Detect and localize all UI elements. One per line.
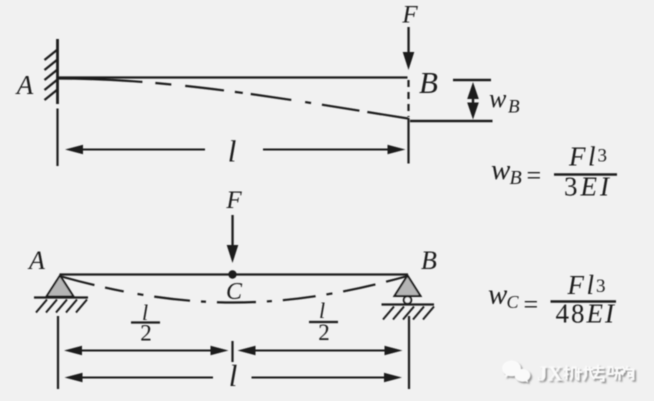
glyph 械: [577, 366, 595, 381]
roller support B (triangle): [395, 276, 421, 297]
svg-text:l: l: [229, 358, 238, 393]
right extension line (bottom): [408, 316, 410, 389]
svg-text:l: l: [228, 134, 237, 169]
left extension line (bottom): [57, 316, 59, 389]
node C dot: [228, 270, 236, 278]
svg-text:3: 3: [596, 276, 606, 297]
svg-text:B: B: [508, 97, 520, 118]
glyph 研: [607, 367, 622, 380]
ground line A: [34, 296, 88, 298]
deflection curve 2 (dash-dot): [60, 276, 408, 302]
deflection curve 1 (dash-dot): [58, 79, 409, 119]
svg-text:2: 2: [140, 321, 152, 346]
ground hatching A: [36, 300, 87, 313]
svg-text:A: A: [15, 70, 34, 100]
left extension line (top): [56, 109, 58, 167]
svg-text:3EI: 3EI: [564, 172, 612, 202]
svg-text:w: w: [489, 84, 507, 113]
glyph 机: [564, 366, 578, 381]
svg-text:Fl: Fl: [567, 270, 595, 300]
svg-text:=: =: [527, 161, 542, 190]
svg-text:=: =: [524, 290, 539, 319]
wB double arrow: [467, 82, 479, 120]
svg-text:B: B: [419, 65, 438, 100]
roller circle: [404, 296, 412, 304]
watermark text JX机械考研狗: [537, 362, 633, 386]
svg-text:B: B: [510, 167, 522, 189]
wB top reference line: [453, 79, 491, 81]
svg-text:C: C: [226, 279, 243, 305]
dashed drop line at B: [407, 80, 409, 117]
svg-text:48EI: 48EI: [556, 299, 616, 329]
fraction l/2 (left): [131, 300, 160, 346]
beam 2 (simply supported): [60, 273, 409, 275]
svg-text:w: w: [488, 279, 508, 311]
ground hatching B: [383, 307, 434, 320]
glyph 考: [593, 365, 605, 381]
fraction l/2 (right): [309, 298, 338, 345]
beam 1 (cantilever): [58, 76, 408, 78]
fixed wall support A (top beam): [56, 39, 59, 104]
dimension row l/2 left: [80, 350, 386, 352]
glyph 狗: [621, 366, 633, 379]
svg-text:A: A: [27, 246, 45, 275]
center tick: [231, 341, 233, 362]
svg-text:w: w: [491, 154, 511, 186]
wall hatching: [45, 50, 58, 101]
wB bottom reference line: [410, 120, 493, 122]
svg-text:F: F: [225, 187, 242, 214]
watermark logo (chat bubbles): [502, 361, 530, 383]
dimension line l (top): [80, 149, 391, 151]
svg-text:2: 2: [318, 320, 330, 345]
svg-text:JX: JX: [537, 362, 563, 386]
svg-text:3: 3: [598, 146, 608, 167]
dimension row l (bottom): [80, 377, 386, 379]
svg-text:C: C: [507, 292, 520, 312]
ground line B: [382, 303, 435, 305]
svg-text:B: B: [421, 246, 437, 275]
formula wC = Fl^3 / 48EI: [488, 270, 616, 329]
force F arrow (bottom): [227, 215, 239, 263]
svg-text:F: F: [401, 2, 418, 29]
right extension line (top): [407, 118, 409, 164]
svg-text:Fl: Fl: [568, 142, 596, 172]
formula wB = Fl^3 / 3EI: [491, 142, 617, 202]
force F arrow (top): [403, 27, 415, 70]
pinned support A (triangle): [47, 276, 74, 297]
